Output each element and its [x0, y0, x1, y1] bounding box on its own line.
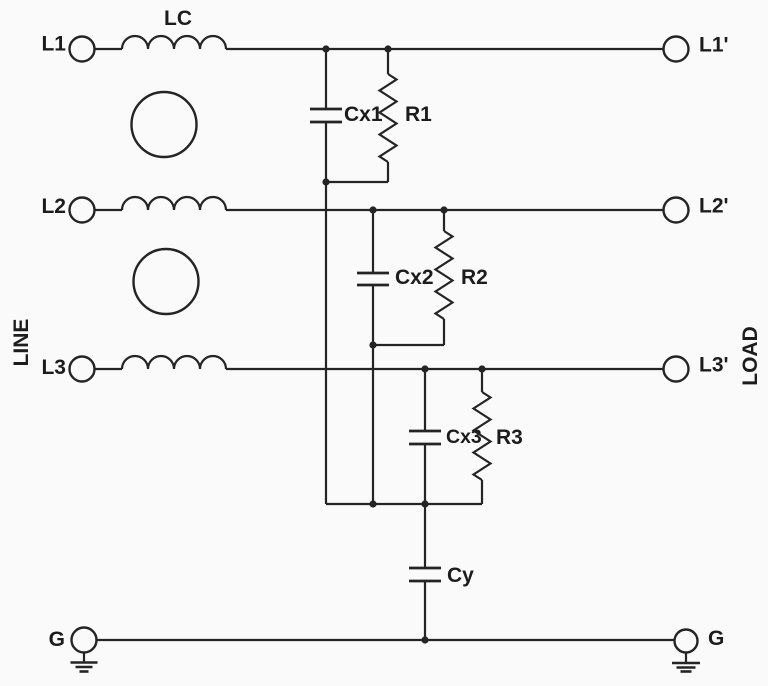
svg-text:L1': L1' [699, 34, 729, 57]
svg-text:LOAD: LOAD [739, 326, 762, 386]
svg-text:Cx1: Cx1 [344, 103, 383, 126]
resistor R3 zigzag [474, 392, 491, 480]
capacitor Cx1 lower lead (continues down to star bus) [325, 123, 327, 504]
ground symbol (right) [672, 653, 700, 672]
terminal L3' [664, 357, 689, 382]
junction node Cx1 bottom / R1 return [322, 178, 329, 185]
choke core circle (between L2 and L3) [134, 249, 199, 314]
capacitor Cx3 lower lead (continues down to star bus) [424, 445, 426, 504]
inductor (phase L3) [122, 356, 226, 369]
junction node L3/R3 [478, 365, 485, 372]
svg-text:G: G [708, 627, 724, 650]
svg-text:LINE: LINE [10, 319, 33, 367]
ground bus wire G to G [97, 639, 676, 641]
resistor R2 zigzag [436, 231, 453, 319]
svg-text:L3: L3 [41, 356, 66, 379]
terminal G (left) [72, 628, 97, 653]
terminal G (right) [675, 630, 698, 653]
svg-text:R2: R2 [461, 266, 488, 289]
svg-text:R1: R1 [405, 103, 432, 126]
svg-text:Cx2: Cx2 [395, 266, 434, 289]
wire L1 terminal to inductor [95, 48, 123, 50]
terminal L3 [70, 357, 95, 382]
junction node L2/R2 [440, 206, 447, 213]
svg-text:L2: L2 [41, 195, 66, 218]
junction node L2/Cx2 [369, 206, 376, 213]
choke core circle (between L1 and L2) [132, 92, 197, 157]
wire L3 terminal to inductor [95, 368, 123, 370]
svg-text:L1: L1 [41, 33, 66, 56]
inductor (phase L2) [122, 197, 226, 210]
capacitor Cy top plate [409, 567, 441, 570]
junction node bus/Cx2 [369, 500, 376, 507]
capacitor Cx2 top plate [357, 272, 389, 275]
svg-text:G: G [49, 628, 65, 651]
wire L2 terminal to inductor [95, 209, 123, 211]
capacitor Cx1 top plate [310, 108, 342, 111]
resistor R2 upper lead [443, 210, 445, 231]
resistor R1 upper lead [387, 49, 389, 74]
wire L1 to L1' [226, 48, 664, 50]
wire R2 bottom to Cx2 branch [373, 344, 444, 346]
wire L2 to L2' [226, 209, 664, 211]
svg-text:L2': L2' [699, 195, 729, 218]
terminal L1' [664, 37, 689, 62]
svg-text:R3: R3 [496, 426, 523, 449]
ground symbol (left) [71, 653, 98, 672]
capacitor Cx1 branch: upper lead [325, 49, 327, 108]
capacitor Cx2 lower lead (continues down to star bus) [372, 286, 374, 504]
svg-text:L3': L3' [699, 354, 729, 377]
terminal L2 [70, 198, 95, 223]
junction node ground bus / Cy [421, 636, 428, 643]
capacitor Cy upper lead [424, 504, 426, 567]
capacitor Cx3 top plate [409, 430, 441, 433]
svg-text:LC: LC [164, 7, 192, 30]
capacitor Cx1 bottom plate [310, 121, 342, 124]
resistor R1 zigzag [380, 74, 397, 162]
junction node L1/R1 [384, 45, 391, 52]
resistor R2 lower lead [443, 319, 445, 345]
junction node bus/Cx3/Cy [421, 500, 428, 507]
resistor R3 lower lead down to star bus [481, 480, 483, 504]
junction node L3/Cx3 [421, 365, 428, 372]
terminal L1 [70, 37, 95, 62]
inductor LC (phase L1) [122, 36, 226, 49]
capacitor Cx2 bottom plate [357, 284, 389, 287]
capacitor Cx3 bottom plate [409, 443, 441, 446]
terminal L2' [664, 198, 689, 223]
resistor R3 upper lead [481, 369, 483, 392]
capacitor Cx3 branch: upper lead [424, 369, 426, 430]
capacitor Cx2 branch: upper lead [372, 210, 374, 272]
star bus wire joining Cx branches and R3 [326, 503, 482, 505]
junction node Cx2 bottom / R2 return [369, 341, 376, 348]
wire L3 to L3' [226, 368, 664, 370]
capacitor Cy bottom plate [409, 580, 441, 583]
wire R1 bottom to Cx1 branch [326, 181, 388, 183]
resistor R1 lower lead [387, 162, 389, 182]
capacitor Cy lower lead to ground bus [424, 582, 426, 640]
svg-text:Cy: Cy [447, 564, 474, 587]
junction node L1/Cx1 [322, 45, 329, 52]
